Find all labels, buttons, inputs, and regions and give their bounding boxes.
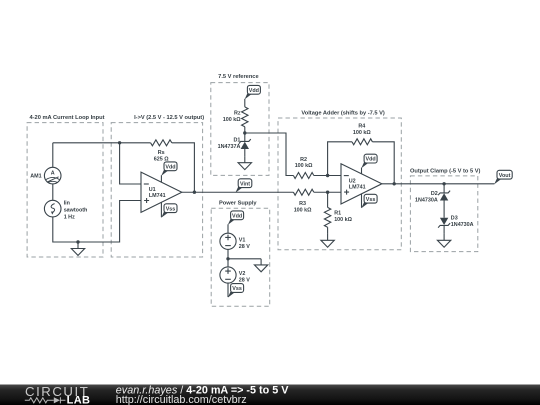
node: noninverting input junction bbox=[326, 191, 329, 194]
section box: I-to-V converter bbox=[111, 123, 202, 257]
wire: U1 V- pin bbox=[160, 202, 162, 217]
svg-text:I->V (2.5 V - 12.5 V output): I->V (2.5 V - 12.5 V output) bbox=[134, 115, 204, 121]
svg-text:Vss: Vss bbox=[232, 286, 242, 292]
flag Vint bbox=[235, 187, 242, 193]
node: U1 output junction bbox=[193, 191, 196, 194]
ground bbox=[244, 156, 246, 162]
wire bbox=[372, 142, 394, 184]
svg-text:Vss: Vss bbox=[366, 197, 376, 203]
flag Vss (supply) bbox=[228, 291, 235, 297]
wire bbox=[227, 224, 229, 233]
voltage source V2 bbox=[220, 267, 250, 284]
wire bbox=[328, 142, 352, 176]
section box: 4-20 mA Current Loop Input bbox=[27, 123, 103, 257]
node: ground junction bbox=[76, 240, 79, 243]
voltage source V1 bbox=[220, 233, 250, 250]
node: U2 output junction bbox=[393, 182, 396, 185]
svg-text:100 kΩ: 100 kΩ bbox=[295, 163, 313, 169]
wire bbox=[172, 143, 195, 192]
wire bbox=[53, 142, 151, 144]
svg-text:sawtooth: sawtooth bbox=[64, 208, 88, 214]
svg-text:Output Clamp (-5 V to 5 V): Output Clamp (-5 V to 5 V) bbox=[410, 168, 481, 174]
wire bbox=[227, 249, 229, 267]
flag Vdd (reference) bbox=[245, 93, 252, 99]
wire bbox=[443, 184, 445, 193]
resistor Rz bbox=[242, 107, 248, 127]
zener diode D2 bbox=[438, 191, 450, 196]
wire bbox=[314, 175, 341, 177]
svg-text:Vdd: Vdd bbox=[366, 157, 376, 163]
wire bbox=[314, 191, 341, 193]
wire bbox=[182, 191, 294, 193]
flag Vdd (U1) bbox=[161, 170, 168, 176]
svg-text:Voltage Adder (shifts by -7.5: Voltage Adder (shifts by -7.5 V) bbox=[301, 111, 385, 117]
section box: Power Supply bbox=[211, 208, 270, 306]
wire bbox=[120, 143, 141, 184]
ground bbox=[260, 259, 262, 265]
svg-text:1N4737A: 1N4737A bbox=[218, 144, 241, 150]
svg-text:Iin: Iin bbox=[64, 201, 70, 207]
wire bbox=[244, 127, 246, 142]
wire bbox=[382, 183, 495, 185]
wire bbox=[327, 227, 329, 233]
resistor Rs bbox=[151, 140, 172, 146]
CircuitLab logo bbox=[25, 384, 91, 405]
ground bbox=[77, 242, 79, 249]
svg-text:A: A bbox=[51, 171, 55, 177]
wire: U2 V- pin bbox=[361, 194, 363, 208]
flag Vout bbox=[494, 178, 501, 184]
section box: 7.5 V reference bbox=[211, 83, 269, 176]
footer bar bbox=[0, 385, 540, 405]
resistor R2 bbox=[293, 173, 313, 179]
resistor R1 bbox=[327, 192, 329, 207]
flag Vdd (supply) bbox=[228, 219, 235, 225]
svg-text:R2: R2 bbox=[300, 157, 307, 163]
wire bbox=[52, 143, 54, 168]
wire bbox=[244, 149, 246, 156]
svg-text:1N4730A: 1N4730A bbox=[415, 197, 438, 203]
svg-text:Vdd: Vdd bbox=[249, 88, 259, 94]
wire: U1 V+ pin bbox=[160, 175, 162, 182]
wire bbox=[228, 258, 261, 260]
resistor R3 bbox=[293, 189, 313, 195]
ground bbox=[443, 233, 445, 240]
op-amp U1 bbox=[141, 172, 182, 212]
svg-text:R4: R4 bbox=[358, 124, 365, 130]
zener diode D3 bbox=[438, 223, 450, 228]
svg-text:100 kΩ: 100 kΩ bbox=[353, 130, 371, 136]
svg-text:Rz: Rz bbox=[234, 110, 241, 116]
svg-text:D2: D2 bbox=[431, 191, 438, 197]
svg-text:AM1: AM1 bbox=[30, 173, 41, 179]
wire bbox=[244, 99, 246, 107]
node: clamp junction bbox=[442, 182, 445, 185]
wire bbox=[245, 133, 294, 176]
section box: Voltage Adder bbox=[278, 118, 401, 250]
svg-text:7.5 V reference: 7.5 V reference bbox=[218, 74, 258, 80]
node: inverting input junction bbox=[326, 174, 329, 177]
node: feedback junction bbox=[118, 141, 121, 144]
svg-text:1N4730A: 1N4730A bbox=[451, 222, 474, 228]
svg-text:R3: R3 bbox=[299, 201, 306, 207]
resistor R4 bbox=[352, 139, 372, 145]
flag Vss (U1) bbox=[161, 212, 168, 218]
svg-text:LM741: LM741 bbox=[349, 184, 366, 190]
svg-text:Vout: Vout bbox=[499, 173, 511, 179]
svg-text:LAB: LAB bbox=[67, 395, 91, 405]
svg-text:Vdd: Vdd bbox=[232, 213, 242, 219]
svg-text:Power Supply: Power Supply bbox=[219, 201, 257, 207]
section box: Output Clamp bbox=[410, 176, 477, 252]
svg-text:100 kΩ: 100 kΩ bbox=[294, 207, 312, 213]
node: reference node bbox=[243, 131, 246, 134]
wire: V2 bottom pin bbox=[227, 283, 229, 297]
svg-text:4-20 mA Current Loop Input: 4-20 mA Current Loop Input bbox=[30, 115, 105, 121]
svg-text:V1: V1 bbox=[239, 237, 246, 243]
svg-text:28 V: 28 V bbox=[239, 244, 250, 250]
ammeter AM1 bbox=[30, 167, 61, 184]
current source Iin bbox=[44, 200, 87, 220]
svg-text:V2: V2 bbox=[239, 271, 246, 277]
svg-text:Rs: Rs bbox=[158, 150, 165, 156]
svg-text:Vint: Vint bbox=[240, 181, 250, 187]
zener diode D1 bbox=[239, 139, 251, 144]
svg-text:LM741: LM741 bbox=[149, 193, 166, 199]
wire bbox=[53, 201, 141, 243]
wire bbox=[52, 184, 54, 200]
svg-text:1 Hz: 1 Hz bbox=[64, 215, 75, 221]
svg-text:Vdd: Vdd bbox=[165, 164, 175, 170]
ground bbox=[327, 233, 329, 240]
svg-text:Vss: Vss bbox=[166, 206, 176, 212]
node: supply midpoint bbox=[226, 257, 229, 260]
svg-text:100 kΩ: 100 kΩ bbox=[223, 117, 241, 123]
svg-text:http://circuitlab.com/cetvbrz: http://circuitlab.com/cetvbrz bbox=[116, 394, 247, 405]
svg-text:D1: D1 bbox=[233, 138, 240, 144]
svg-text:28 V: 28 V bbox=[239, 277, 250, 283]
flag Vdd (U2) bbox=[361, 162, 368, 168]
op-amp U2 bbox=[341, 164, 382, 204]
svg-text:R1: R1 bbox=[334, 211, 341, 217]
wire bbox=[443, 225, 445, 233]
wire bbox=[443, 201, 445, 218]
wire: U2 V+ pin bbox=[361, 168, 363, 174]
flag Vss (U2) bbox=[361, 202, 368, 208]
svg-text:100 kΩ: 100 kΩ bbox=[334, 217, 352, 223]
svg-text:D3: D3 bbox=[451, 216, 458, 222]
